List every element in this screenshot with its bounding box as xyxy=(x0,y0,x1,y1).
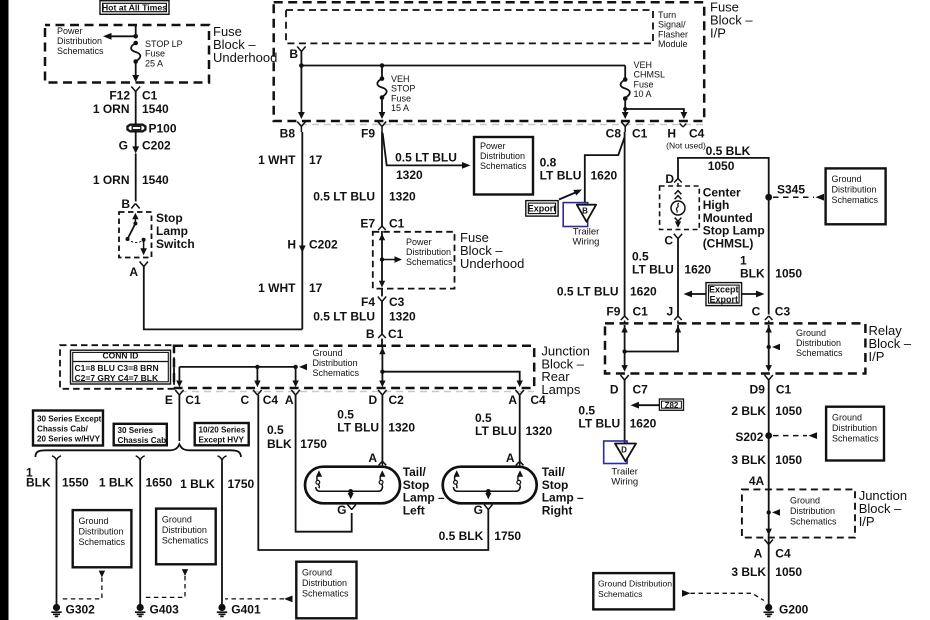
svg-text:C2: C2 xyxy=(389,393,405,407)
svg-text:LT BLU: LT BLU xyxy=(540,169,582,183)
wire B8 drop with arrow xyxy=(298,66,305,120)
svg-text:D: D xyxy=(665,172,674,186)
label 0.5 BLK 1750 xyxy=(439,529,522,543)
svg-text:Power: Power xyxy=(480,141,506,151)
svg-text:C: C xyxy=(664,234,673,248)
junction block rear lamps dashed box xyxy=(174,346,534,388)
svg-text:Distribution: Distribution xyxy=(406,247,451,257)
svg-text:A: A xyxy=(368,451,377,465)
svg-text:0.5: 0.5 xyxy=(475,411,492,425)
label 3 BLK 1050 xyxy=(731,565,802,579)
svg-text:I/P: I/P xyxy=(859,514,875,529)
svg-text:BLK: BLK xyxy=(740,267,765,281)
svg-text:C7: C7 xyxy=(633,383,649,397)
svg-text:E: E xyxy=(165,393,173,407)
svg-text:0.5: 0.5 xyxy=(578,404,595,418)
label 3 BLK 1050 xyxy=(731,453,802,467)
connector D C7 xyxy=(610,375,648,397)
svg-text:Distribution: Distribution xyxy=(480,151,525,161)
svg-text:3 BLK: 3 BLK xyxy=(731,565,766,579)
label ground distribution schematics (in junction block) xyxy=(313,348,360,378)
svg-text:F9: F9 xyxy=(361,127,375,141)
svg-text:G: G xyxy=(474,503,483,517)
svg-text:Distribution: Distribution xyxy=(796,338,841,348)
wire down from fuse with arrow xyxy=(132,62,139,83)
svg-text:1620: 1620 xyxy=(630,285,657,299)
svg-text:30 Series: 30 Series xyxy=(118,426,154,435)
connector D of CHMSL xyxy=(665,172,681,186)
label 0.5 LT BLU 1620 (C wire) xyxy=(632,250,711,277)
svg-text:C1: C1 xyxy=(776,383,792,397)
svg-text:G: G xyxy=(119,139,128,153)
internal stop feed wire B to D/A drops xyxy=(379,346,523,387)
svg-text:G: G xyxy=(337,503,346,517)
wire A drop (0.5 BLK 1750) to left lamp ground xyxy=(296,395,352,532)
svg-text:VEH: VEH xyxy=(634,60,653,70)
fuse block I/P outer dashed box xyxy=(274,2,705,121)
label 0.5 LT BLU 1320 xyxy=(313,310,416,324)
svg-text:1550: 1550 xyxy=(62,476,89,490)
svg-text:S345: S345 xyxy=(777,183,805,197)
svg-text:C1: C1 xyxy=(633,305,649,319)
fuse VEH STOP 15 A xyxy=(377,66,415,120)
Export box xyxy=(526,201,558,217)
svg-text:Turn: Turn xyxy=(658,10,676,20)
svg-text:Power: Power xyxy=(57,26,83,36)
svg-text:Except HVY: Except HVY xyxy=(199,435,245,444)
fuse VEH CHMSL 10 A xyxy=(621,60,665,119)
bus wire across fuse block xyxy=(299,63,625,68)
label 2 BLK 1050 xyxy=(731,404,802,418)
svg-text:B: B xyxy=(121,197,130,211)
svg-text:Schematics: Schematics xyxy=(406,257,453,267)
ground distribution schematics box (left 1) xyxy=(73,510,132,567)
svg-text:0.5 BLK: 0.5 BLK xyxy=(439,529,484,543)
svg-text:Ground: Ground xyxy=(162,515,192,525)
svg-text:Schematics: Schematics xyxy=(832,195,879,205)
svg-text:VEH: VEH xyxy=(391,74,410,84)
label Relay Block - I/P xyxy=(869,323,912,364)
svg-text:LT BLU: LT BLU xyxy=(632,263,674,277)
svg-text:Left: Left xyxy=(403,503,425,517)
svg-text:1050: 1050 xyxy=(775,404,802,418)
svg-text:D9: D9 xyxy=(750,383,766,397)
svg-text:Signal/: Signal/ xyxy=(658,20,686,30)
svg-text:Schematics: Schematics xyxy=(796,348,843,358)
svg-text:0.5 BLK: 0.5 BLK xyxy=(706,144,751,158)
label 1 ORN 1540 xyxy=(93,173,169,187)
label Fuse Block - Underhood (2) xyxy=(460,230,524,271)
svg-text:3 BLK: 3 BLK xyxy=(731,453,766,467)
svg-text:1750: 1750 xyxy=(494,529,521,543)
faint page-break dashed line xyxy=(300,124,703,126)
ground distribution schematics box (bottom middle-left) xyxy=(296,562,356,619)
label 0.5 LT BLU 1320 xyxy=(313,190,416,204)
ground G200 xyxy=(764,603,809,617)
svg-text:1620: 1620 xyxy=(684,263,711,277)
svg-text:Schematics: Schematics xyxy=(832,434,879,444)
connector A (0.5 BLK drop) xyxy=(285,390,300,407)
connector D C2 xyxy=(369,390,405,407)
label 1 WHT 17 xyxy=(258,153,323,167)
connector A C4 xyxy=(508,390,546,407)
svg-text:C3: C3 xyxy=(389,295,405,309)
ground distribution schematics box (bottom right) xyxy=(593,573,674,609)
connector C of CHMSL xyxy=(664,234,673,248)
svg-text:1540: 1540 xyxy=(142,102,169,116)
svg-text:Flasher: Flasher xyxy=(658,29,688,39)
wire C202 to switch B xyxy=(135,154,137,202)
dashed reference arrow to G200 xyxy=(682,590,764,601)
svg-text:I/P: I/P xyxy=(710,26,726,41)
svg-text:0.5: 0.5 xyxy=(337,408,354,422)
connector H C4 not used xyxy=(666,124,706,151)
wire to G401 xyxy=(221,462,223,605)
dashed reference arrow box1 to G302 xyxy=(61,571,105,599)
svg-text:Distribution: Distribution xyxy=(162,525,207,535)
wire F9 down xyxy=(381,132,383,226)
svg-text:0.5: 0.5 xyxy=(267,423,284,437)
stop lamp switch (dashed box) xyxy=(119,212,152,258)
svg-text:10 A: 10 A xyxy=(634,89,652,99)
wire: feed into STOP LP fuse xyxy=(135,25,137,36)
svg-text:Ground: Ground xyxy=(796,328,826,338)
label 1 BLK 1750 xyxy=(180,477,254,491)
svg-text:1620: 1620 xyxy=(630,417,657,431)
svg-text:CHMSL: CHMSL xyxy=(634,70,666,80)
label Turn Signal/Flasher Module xyxy=(658,10,688,49)
svg-text:1650: 1650 xyxy=(146,476,173,490)
connector P100 xyxy=(128,122,177,136)
CONN ID table xyxy=(71,350,171,384)
svg-text:0.5 LT BLU: 0.5 LT BLU xyxy=(313,190,375,204)
svg-text:Chassis Cab/: Chassis Cab/ xyxy=(37,425,89,434)
svg-text:0.5: 0.5 xyxy=(632,250,649,264)
fuse block underhood box 2 (dashed) xyxy=(373,232,455,289)
ground distribution schematics box (S202) xyxy=(826,407,884,461)
label Fuse Block - Underhood xyxy=(213,24,277,65)
svg-text:4A: 4A xyxy=(749,474,765,488)
svg-text:Schematics: Schematics xyxy=(313,368,360,378)
svg-text:(Not used): (Not used) xyxy=(666,141,706,151)
splice S202 xyxy=(735,430,817,444)
svg-text:Schematics: Schematics xyxy=(79,537,126,547)
svg-text:Schematics: Schematics xyxy=(480,161,527,171)
svg-text:0.5 LT BLU: 0.5 LT BLU xyxy=(313,310,375,324)
svg-text:Hot at All Times: Hot at All Times xyxy=(102,3,167,13)
svg-text:(CHMSL): (CHMSL) xyxy=(703,236,754,250)
connector hook G403 wire xyxy=(136,456,145,462)
svg-text:C8: C8 xyxy=(606,127,622,141)
svg-text:A: A xyxy=(754,547,763,561)
svg-text:C1: C1 xyxy=(142,89,158,103)
dashed reference arrow box2 to G403 xyxy=(145,569,188,597)
svg-text:0.5 LT BLU: 0.5 LT BLU xyxy=(557,285,619,299)
svg-text:1320: 1320 xyxy=(526,424,553,438)
svg-text:A: A xyxy=(285,393,294,407)
svg-text:10/20 Series: 10/20 Series xyxy=(199,425,246,434)
svg-text:1750: 1750 xyxy=(228,477,255,491)
connector F9 xyxy=(361,122,386,141)
wire arrow to power distribution xyxy=(103,33,138,40)
junction block I/P dashed box xyxy=(742,489,855,537)
svg-text:Distribution: Distribution xyxy=(302,578,347,588)
svg-text:C4: C4 xyxy=(775,547,791,561)
svg-text:Ground: Ground xyxy=(832,174,862,184)
wire D to CHMSL and ground bus 0.5 BLK xyxy=(678,158,769,315)
svg-text:Schematics: Schematics xyxy=(162,536,209,546)
connector A of right lamp xyxy=(506,451,524,467)
svg-text:1620: 1620 xyxy=(591,169,618,183)
svg-text:Export: Export xyxy=(528,204,557,214)
wire right lamp G back to junction block C C4 xyxy=(258,395,488,550)
svg-text:Fuse: Fuse xyxy=(634,79,654,89)
connector hook G302 wire xyxy=(52,456,61,462)
svg-text:25 A: 25 A xyxy=(145,58,163,68)
svg-text:0.8: 0.8 xyxy=(540,156,557,170)
svg-text:Power: Power xyxy=(406,237,432,247)
svg-text:Ground: Ground xyxy=(302,568,332,578)
svg-text:1320: 1320 xyxy=(389,190,416,204)
label Hot at All Times xyxy=(100,1,169,15)
svg-text:1750: 1750 xyxy=(300,437,327,451)
connector A C4 (below junction block I/P) xyxy=(754,540,791,561)
svg-text:Underhood: Underhood xyxy=(213,50,277,65)
wire D C7 to trailer wiring 2 xyxy=(624,380,626,443)
svg-text:A: A xyxy=(508,393,517,407)
CHMSL lamp (dashed box) xyxy=(660,186,700,239)
svg-text:Except: Except xyxy=(709,285,739,295)
svg-text:Distribution: Distribution xyxy=(57,36,102,46)
svg-text:Wiring: Wiring xyxy=(573,237,600,248)
svg-text:Ground: Ground xyxy=(313,348,343,358)
svg-text:C4: C4 xyxy=(530,393,546,407)
faint page-break dashed line 2 xyxy=(180,391,534,393)
svg-text:Stop: Stop xyxy=(156,211,183,225)
svg-text:F4: F4 xyxy=(361,295,375,309)
wire C down to relay J xyxy=(677,239,679,316)
connector F12 C1 xyxy=(109,87,157,103)
label Center High Mounted Stop Lamp (CHMSL) xyxy=(703,186,765,251)
svg-text:C4: C4 xyxy=(689,127,705,141)
wire C8 down to relay F9 xyxy=(624,132,626,316)
svg-text:C1: C1 xyxy=(388,327,404,341)
connector C C4 xyxy=(241,390,279,407)
connector G of right lamp xyxy=(474,503,493,517)
wire F4 to B xyxy=(381,302,383,335)
svg-text:A: A xyxy=(506,451,515,465)
svg-text:C2=7 GRY C4=7 BLK: C2=7 GRY C4=7 BLK xyxy=(75,373,159,383)
connector G of left lamp xyxy=(337,503,356,517)
svg-text:C202: C202 xyxy=(142,139,171,153)
svg-text:Distribution: Distribution xyxy=(832,423,877,433)
svg-text:30 Series Except: 30 Series Except xyxy=(37,415,102,424)
svg-text:P100: P100 xyxy=(149,122,177,136)
wire E C1 down to brace xyxy=(178,395,180,441)
svg-text:LT BLU: LT BLU xyxy=(578,417,620,431)
label Power Distribution Schematics xyxy=(57,26,104,56)
svg-text:B: B xyxy=(289,47,298,61)
connector hook G401 wire xyxy=(218,456,227,462)
svg-text:2 BLK: 2 BLK xyxy=(731,404,766,418)
wire to G403 xyxy=(139,462,141,605)
svg-text:1 ORN: 1 ORN xyxy=(93,173,130,187)
ground G401 xyxy=(217,603,261,617)
label 0.5 BLK 1050 xyxy=(706,144,751,173)
series option box 3 xyxy=(195,423,249,445)
connector F9 C1 (relay block) xyxy=(606,305,648,324)
svg-text:C4: C4 xyxy=(263,393,279,407)
svg-text:D: D xyxy=(621,446,627,455)
ground distribution schematics box (left 2) xyxy=(156,509,216,565)
svg-text:CONN ID: CONN ID xyxy=(103,351,139,361)
label 0.8 LT BLU 1620 xyxy=(540,156,618,183)
connector B C1 xyxy=(366,327,404,346)
svg-text:Fuse: Fuse xyxy=(145,49,165,59)
svg-text:1 WHT: 1 WHT xyxy=(258,281,296,295)
svg-text:F9: F9 xyxy=(606,305,620,319)
wire CHMSL fuse branch to H xyxy=(623,107,687,119)
svg-text:Distribution: Distribution xyxy=(79,527,124,537)
svg-text:Distribution: Distribution xyxy=(832,185,877,195)
turn signal flasher module dashed box xyxy=(286,10,653,43)
svg-text:G401: G401 xyxy=(231,603,261,617)
connector E7 C1 xyxy=(360,217,404,231)
svg-text:H: H xyxy=(667,127,676,141)
svg-text:1: 1 xyxy=(740,254,747,268)
tail/stop lamp right (capsule) xyxy=(443,467,537,504)
svg-text:C1: C1 xyxy=(389,217,405,231)
svg-text:Wiring: Wiring xyxy=(611,477,638,488)
svg-text:Ground: Ground xyxy=(832,413,862,423)
connector A of left lamp xyxy=(368,451,386,467)
label Stop Lamp Switch xyxy=(156,211,195,251)
svg-text:1050: 1050 xyxy=(775,565,802,579)
svg-text:1 ORN: 1 ORN xyxy=(93,102,130,116)
svg-text:I/P: I/P xyxy=(869,349,885,364)
tail/stop lamp left (capsule) xyxy=(305,467,400,504)
label Tail/Stop Lamp - Right xyxy=(542,465,584,517)
svg-text:C: C xyxy=(241,393,250,407)
svg-text:0.5 LT BLU: 0.5 LT BLU xyxy=(395,151,457,165)
connector A of switch xyxy=(129,262,148,280)
svg-text:1320: 1320 xyxy=(389,310,416,324)
svg-text:STOP: STOP xyxy=(391,84,415,94)
svg-text:E7: E7 xyxy=(360,217,375,231)
svg-text:F12: F12 xyxy=(109,89,130,103)
svg-text:15 A: 15 A xyxy=(391,103,409,113)
wire B8 down xyxy=(301,132,303,329)
svg-text:STOP LP: STOP LP xyxy=(145,39,183,49)
connector F4 C3 xyxy=(361,289,405,310)
svg-text:1320: 1320 xyxy=(396,168,423,182)
ground G302 xyxy=(51,603,95,617)
svg-text:17: 17 xyxy=(309,281,323,295)
connector H C202 with arrow xyxy=(287,238,338,253)
svg-text:Switch: Switch xyxy=(156,237,195,251)
svg-text:Schematics: Schematics xyxy=(790,517,837,527)
internal ground bus wire (E/C/C4 drops) xyxy=(176,364,307,388)
svg-text:Schematics: Schematics xyxy=(598,589,642,599)
label Junction Block - Rear Lamps xyxy=(541,344,589,397)
label power distribution schematics (in box 2) xyxy=(406,237,453,267)
svg-text:Ground: Ground xyxy=(790,496,820,506)
svg-text:Ground Distribution: Ground Distribution xyxy=(598,579,672,589)
label 0.5 LT BLU 1320 xyxy=(475,411,553,438)
svg-text:J: J xyxy=(667,305,674,319)
svg-text:H: H xyxy=(287,238,296,252)
svg-text:B: B xyxy=(582,207,588,216)
svg-text:BLK: BLK xyxy=(26,476,51,490)
label 0.5 LT BLU 1320 xyxy=(337,408,415,435)
connector B8 xyxy=(280,122,306,141)
svg-text:D: D xyxy=(610,383,619,397)
CONN ID dashed box xyxy=(60,345,174,389)
ground G403 xyxy=(135,603,179,617)
brace xyxy=(35,444,241,457)
svg-text:C1=8 BLU C3=8 BRN: C1=8 BLU C3=8 BRN xyxy=(75,363,159,373)
svg-text:Schematics: Schematics xyxy=(57,46,104,56)
label 0.5 LT BLU 1620 (D C7 wire) xyxy=(578,404,656,431)
svg-text:BLK: BLK xyxy=(267,437,292,451)
connector B of switch xyxy=(121,197,139,211)
connector G C202 with arrow xyxy=(119,132,171,154)
wire through box with up arrow, junction, down arrow xyxy=(379,231,402,288)
label Tail/Stop Lamp - Left xyxy=(403,465,445,517)
svg-text:Export: Export xyxy=(710,295,739,305)
svg-text:B: B xyxy=(366,327,375,341)
svg-text:1050: 1050 xyxy=(775,453,802,467)
svg-text:G403: G403 xyxy=(150,603,180,617)
svg-text:Lamp: Lamp xyxy=(156,224,188,238)
wire A C4 drop to right lamp A xyxy=(519,395,521,461)
label 1 BLK 1050 xyxy=(740,254,802,281)
svg-text:Underhood: Underhood xyxy=(460,256,524,271)
wire B down to bus xyxy=(300,52,302,66)
svg-text:1050: 1050 xyxy=(775,267,802,281)
Except Export box with arrows xyxy=(684,283,765,306)
svg-text:Fuse: Fuse xyxy=(391,93,411,103)
svg-text:B8: B8 xyxy=(280,127,296,141)
svg-text:C: C xyxy=(752,305,761,319)
svg-text:G200: G200 xyxy=(779,603,809,617)
svg-text:D: D xyxy=(369,393,378,407)
svg-text:1 WHT: 1 WHT xyxy=(258,153,296,167)
svg-text:Module: Module xyxy=(658,39,688,49)
fuse block underhood box 1 (dashed) xyxy=(45,25,209,83)
trailer wiring symbol 1 xyxy=(563,203,599,248)
label 1 ORN 1540 xyxy=(93,102,169,116)
branch wire to trailer wiring 1 xyxy=(585,137,625,204)
svg-text:LT BLU: LT BLU xyxy=(337,421,379,435)
wire to G302 xyxy=(56,462,58,605)
connector C C3 (relay block) xyxy=(752,305,791,324)
svg-text:C1: C1 xyxy=(185,393,201,407)
Z82 box with arrow xyxy=(631,399,684,410)
arrow Export to trailer wiring xyxy=(559,190,582,200)
svg-text:1540: 1540 xyxy=(142,173,169,187)
svg-text:Schematics: Schematics xyxy=(302,589,349,599)
left black border bar xyxy=(0,0,9,620)
svg-text:1 BLK: 1 BLK xyxy=(99,476,134,490)
svg-text:LT BLU: LT BLU xyxy=(475,424,517,438)
wire D C2 drop to left lamp A xyxy=(381,395,383,461)
svg-text:Right: Right xyxy=(542,503,573,517)
svg-text:S202: S202 xyxy=(735,430,763,444)
connector E C1 xyxy=(165,390,201,407)
svg-text:Lamps: Lamps xyxy=(541,382,581,397)
label Junction Block - I/P xyxy=(859,488,907,529)
